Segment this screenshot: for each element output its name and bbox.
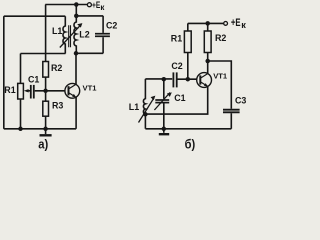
resistor R3 [45,93,47,101]
ground symbol [45,129,47,134]
wire collector stub [207,61,209,74]
capacitor C1 [30,85,32,99]
resistor R1 [187,23,189,31]
node base junction [43,89,48,94]
wire top supply rail [188,22,224,24]
transistor VT1 [65,83,80,98]
wire left top segment to L1 [4,15,66,17]
wire collector to C3 [208,61,232,109]
ground symbol [163,129,165,133]
svg-text:VT1: VT1 [83,84,98,93]
wiper arrow into R1 [26,90,30,92]
svg-text:L1: L1 [52,26,62,36]
svg-text:VT1: VT1 [213,71,228,80]
wire left vertical [3,16,5,129]
terminal +Ek open circle [224,22,228,26]
wire L1 bottom to R1 [21,53,66,55]
terminal +Ek open circle [87,3,91,7]
transistor VT1 [197,73,212,88]
wire tank top right segment [76,15,103,17]
wire emitter [75,97,77,128]
node base junction [186,77,191,82]
svg-text:б): б) [185,138,196,152]
wire ground rail [145,128,231,130]
capacitor C3 [223,109,240,111]
svg-text:R1: R1 [171,33,182,43]
svg-text:L1: L1 [129,102,139,112]
svg-text:к: к [241,20,246,31]
node C1 top junction [162,77,167,82]
node collector junction [74,51,79,56]
transformer core [69,25,71,47]
node tank top junction [74,14,79,19]
svg-text:+E: +E [231,17,241,29]
node emitter tap junction [143,112,148,117]
resistor R1 [20,54,22,84]
inductor L2 winding [74,16,76,53]
wire top supply rail [45,4,87,6]
svg-text:C2: C2 [106,21,117,31]
variability arrow over L1 L2 [60,25,81,48]
svg-text:R2: R2 [215,33,226,43]
node R3 ground junction [43,127,48,132]
svg-text:R1: R1 [4,85,15,95]
svg-text:R3: R3 [52,101,63,111]
inductor L1 winding [63,16,65,53]
capacitor C1 [163,79,165,99]
node supply junction [205,21,210,26]
svg-text:а): а) [38,137,48,151]
node collector junction [205,59,210,64]
svg-text:C2: C2 [171,61,182,71]
node C1 ground junction [162,127,167,132]
node supply junction [74,2,79,7]
resistor R2 [207,23,209,31]
node R1 ground junction [18,127,23,132]
wire tank top [145,78,172,80]
variability arrow L1 [139,98,155,123]
resistor R2 [45,5,47,62]
wire tank bottom right segment [76,52,103,54]
capacitor C2 [172,72,174,87]
svg-text:R2: R2 [51,63,62,73]
wire collector [75,53,77,84]
variability arrow C1 [154,93,170,111]
wire emitter [145,87,207,115]
capacitor C2 [102,16,104,33]
wire ground rail [4,128,76,130]
svg-text:L2: L2 [79,29,89,39]
wire supply drop [75,5,77,16]
svg-text:C1: C1 [28,74,39,84]
svg-text:+E: +E [92,0,100,10]
inductor L1 [143,79,145,129]
svg-text:C3: C3 [235,96,246,106]
svg-text:C1: C1 [174,93,185,103]
